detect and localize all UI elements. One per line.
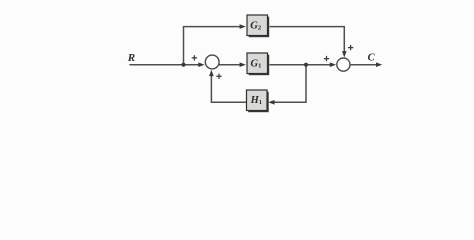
svg-text:C: C [368,53,376,64]
svg-text:R: R [127,52,135,64]
